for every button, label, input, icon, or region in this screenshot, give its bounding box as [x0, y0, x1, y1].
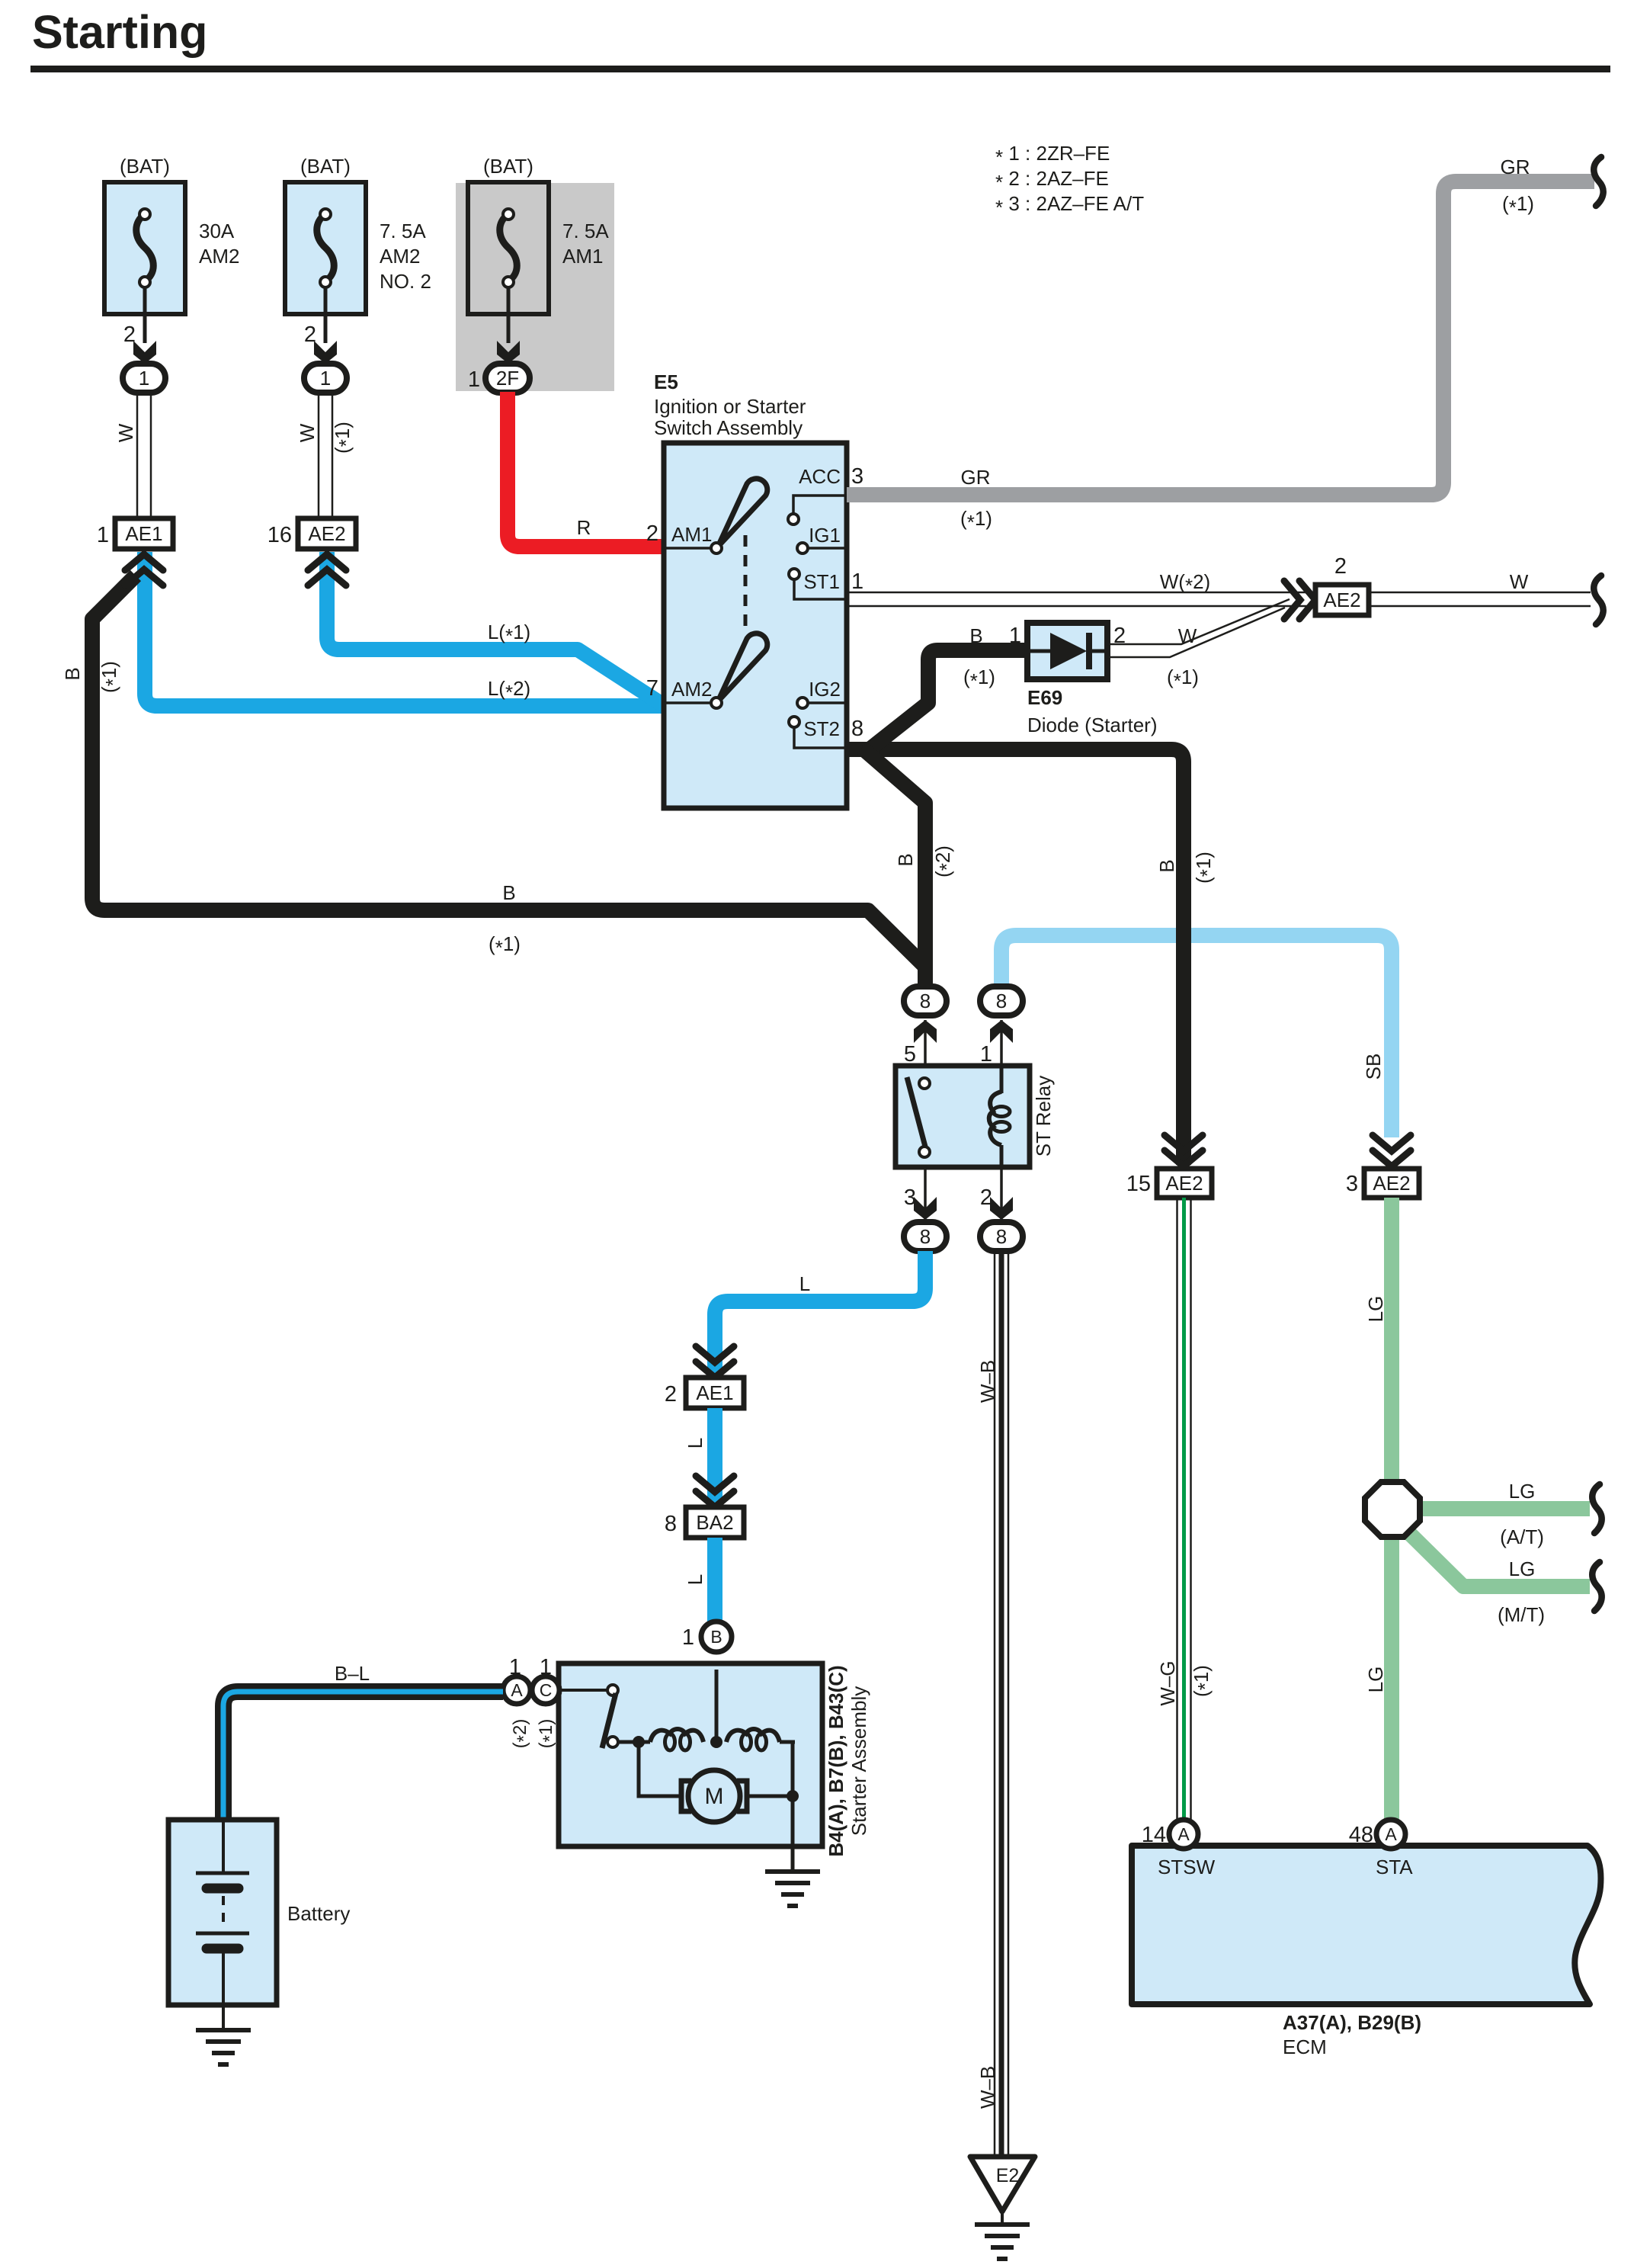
svg-text:L(*2): L(*2) [488, 677, 530, 704]
connector 8 (relay pin2 bottom) [980, 1222, 1023, 1251]
svg-text:(*1): (*1) [1167, 666, 1199, 692]
svg-text:IG1: IG1 [809, 524, 841, 547]
wire motor left [639, 1741, 681, 1796]
svg-text:L: L [684, 1574, 706, 1585]
wire L(*1) blue from AE2 to AM2 [327, 552, 665, 703]
wire L BA2 to starter B [707, 1538, 722, 1622]
svg-text:B–L: B–L [335, 1662, 370, 1685]
wire W fuse1 to AE1 [136, 393, 139, 518]
connector 2F [485, 364, 530, 393]
svg-text:W(*2): W(*2) [1160, 570, 1210, 597]
svg-text:A: A [1385, 1824, 1397, 1844]
svg-text:LG: LG [1364, 1296, 1387, 1323]
wire motor right to ground [791, 1741, 795, 1872]
svg-text:L(*1): L(*1) [488, 621, 530, 647]
svg-text:(*2): (*2) [931, 845, 958, 877]
svg-text:1: 1 [468, 367, 480, 392]
wire L blue from AE1 to AM2 (L(*2)) [145, 552, 665, 706]
wire LG octagon to ECM STA [1384, 1537, 1399, 1820]
connector AE1 pin1 [115, 518, 173, 549]
starter assembly box [559, 1663, 822, 1846]
wire R red from 2F to AM1 [508, 392, 665, 547]
svg-text:7. 5A: 7. 5A [380, 220, 426, 242]
connector AE2 pin15 [1165, 1135, 1203, 1151]
svg-text:B: B [894, 853, 917, 866]
wire LG M/T [1407, 1531, 1590, 1586]
svg-text:E5: E5 [654, 371, 678, 393]
wire relay pin1 [1000, 1020, 1003, 1066]
svg-text:2: 2 [646, 521, 658, 546]
svg-text:AM2: AM2 [380, 245, 420, 268]
svg-text:1: 1 [509, 1655, 521, 1679]
ground (starter) [765, 1869, 820, 1874]
connector 8 (relay pin1 top) [980, 986, 1023, 1015]
svg-text:W: W [114, 423, 137, 442]
svg-text:(*1): (*1) [1192, 852, 1219, 884]
ground point E2 [970, 2157, 1035, 2212]
svg-text:W–B: W–B [976, 1360, 999, 1403]
ground (battery) [196, 2028, 251, 2032]
ignition switch E5 box [664, 443, 847, 808]
svg-text:NO. 2: NO. 2 [380, 270, 431, 293]
svg-text:15: 15 [1126, 1172, 1151, 1196]
svg-text:1: 1 [1009, 624, 1021, 648]
svg-text:2: 2 [1334, 554, 1347, 579]
battery symbol [222, 1820, 225, 1873]
svg-text:STSW: STSW [1158, 1856, 1216, 1878]
svg-text:BA2: BA2 [696, 1511, 733, 1534]
wire break W [1594, 576, 1603, 624]
wire break LG M/T [1592, 1562, 1601, 1611]
svg-text:3: 3 [851, 464, 863, 489]
svg-text:IG2: IG2 [809, 678, 841, 701]
svg-text:Starter Assembly: Starter Assembly [847, 1686, 870, 1837]
starter coils [618, 1740, 650, 1744]
svg-text:ECM: ECM [1283, 2035, 1327, 2058]
node octagon splice [1365, 1482, 1420, 1537]
svg-text:(*1): (*1) [98, 661, 124, 693]
wire L AE1-BA2 [707, 1408, 722, 1505]
svg-text:W: W [1510, 570, 1529, 593]
connector AE1 pin2 [686, 1378, 744, 1408]
svg-text:M: M [705, 1784, 724, 1809]
svg-text:8: 8 [851, 717, 863, 741]
svg-text:(*1): (*1) [489, 932, 521, 959]
svg-text:(*1): (*1) [1190, 1665, 1216, 1697]
svg-text:* 1 : 2ZR–FE: * 1 : 2ZR–FE [995, 142, 1110, 168]
svg-text:8: 8 [920, 990, 931, 1012]
connector A pin1 [503, 1676, 530, 1704]
svg-text:A: A [511, 1680, 523, 1700]
svg-text:(A/T): (A/T) [1500, 1525, 1544, 1548]
svg-text:8: 8 [996, 1225, 1007, 1248]
chevrons into AE1 [125, 554, 163, 570]
svg-text:1: 1 [139, 367, 149, 390]
svg-text:5: 5 [904, 1042, 916, 1067]
wire relay pin2 [1000, 1167, 1003, 1220]
wire W right of AE2 [1369, 592, 1591, 594]
wire B-L battery to starter [223, 1692, 503, 1817]
relay ST Relay box [895, 1066, 1030, 1167]
wire starter B internal [715, 1670, 719, 1741]
svg-text:R: R [577, 516, 591, 539]
svg-text:(*1): (*1) [1502, 192, 1534, 219]
connector 1 (fuse2) [304, 364, 347, 393]
svg-text:30A: 30A [199, 220, 235, 242]
wire break LG A/T [1592, 1484, 1601, 1533]
connector A pin14 (STSW) [1169, 1820, 1198, 1849]
connector AE2 pin3 [1373, 1135, 1411, 1151]
ECM box [1132, 1846, 1600, 2004]
svg-text:ST1: ST1 [803, 570, 840, 593]
svg-text:ACC: ACC [799, 465, 841, 488]
wire SB from relay oval to AE2-3 [1001, 935, 1392, 1137]
svg-text:8: 8 [920, 1225, 931, 1248]
svg-text:B: B [969, 624, 982, 647]
wire relay pin3 [924, 1167, 927, 1220]
svg-text:B: B [1155, 859, 1178, 872]
svg-text:GR: GR [961, 466, 991, 489]
relay coil [1000, 1066, 1004, 1093]
svg-text:48: 48 [1349, 1823, 1373, 1847]
svg-text:A: A [1177, 1824, 1190, 1844]
svg-text:(BAT): (BAT) [120, 155, 170, 178]
wire W-G to ECM STSW [1176, 1198, 1178, 1820]
relay switch [907, 1077, 925, 1147]
svg-text:W–B: W–B [976, 2066, 999, 2109]
svg-text:B: B [61, 667, 84, 680]
svg-text:(*1): (*1) [331, 422, 357, 454]
svg-text:AE1: AE1 [125, 522, 162, 545]
wire B(*1) from AE1 down-left and along bottom [92, 576, 925, 986]
svg-text:AM1: AM1 [562, 245, 603, 268]
wire B(*1) branch to diode [867, 650, 1027, 752]
wire W-B from relay pin2 to E2 [994, 1251, 996, 2157]
svg-text:B: B [710, 1627, 722, 1647]
svg-text:W: W [296, 423, 319, 442]
svg-text:E2: E2 [996, 2165, 1020, 2186]
svg-text:L: L [684, 1438, 706, 1448]
svg-text:(M/T): (M/T) [1498, 1603, 1545, 1626]
svg-text:A37(A), B29(B): A37(A), B29(B) [1283, 2011, 1421, 2034]
battery box [168, 1820, 277, 2005]
motor M [688, 1770, 740, 1822]
connector C pin1 [532, 1676, 559, 1704]
svg-text:1: 1 [540, 1655, 552, 1679]
svg-text:B: B [502, 881, 515, 904]
svg-text:C: C [540, 1680, 553, 1700]
svg-text:B4(A), B7(B), B43(C): B4(A), B7(B), B43(C) [825, 1665, 847, 1856]
svg-text:* 2 : 2AZ–FE: * 2 : 2AZ–FE [995, 167, 1109, 194]
wire relay pin5 [924, 1020, 927, 1066]
svg-text:2F: 2F [496, 367, 519, 390]
svg-text:16: 16 [268, 523, 292, 547]
svg-text:1: 1 [320, 367, 331, 390]
svg-text:STA: STA [1376, 1856, 1413, 1878]
svg-text:Switch Assembly: Switch Assembly [654, 416, 803, 439]
svg-text:(*1): (*1) [960, 507, 992, 534]
svg-text:LG: LG [1509, 1557, 1536, 1580]
wire L from relay to AE1 [715, 1251, 925, 1375]
wire LG down to octagon [1384, 1198, 1399, 1482]
wire fuse3 pin1 [507, 288, 511, 343]
svg-text:1: 1 [851, 569, 863, 594]
svg-text:Ignition or Starter: Ignition or Starter [654, 395, 806, 418]
svg-text:Battery: Battery [287, 1902, 350, 1925]
svg-text:2: 2 [980, 1185, 992, 1210]
connector 8 (relay pin5 top) [904, 986, 947, 1015]
connector AE2 pin2 (mid) [1284, 581, 1300, 619]
svg-text:AM1: AM1 [671, 523, 712, 546]
svg-text:1: 1 [682, 1625, 694, 1650]
svg-text:(*1): (*1) [963, 666, 995, 692]
connector AE2 pin16 [298, 518, 356, 549]
wire W(*1) from diode to AE2 [1107, 599, 1290, 644]
wire B(*2) branch down to ST relay [862, 748, 925, 986]
svg-text:Diode (Starter): Diode (Starter) [1027, 714, 1158, 736]
wire LG A/T [1420, 1501, 1590, 1516]
svg-text:AE2: AE2 [1323, 589, 1360, 611]
svg-text:AE2: AE2 [1165, 1172, 1203, 1195]
svg-text:* 3 : 2AZ–FE A/T: * 3 : 2AZ–FE A/T [995, 192, 1144, 219]
svg-text:AM2: AM2 [199, 245, 239, 268]
wire break GR [1594, 157, 1603, 206]
connector B (starter pin1) [701, 1622, 732, 1652]
svg-text:L: L [799, 1272, 810, 1295]
connector BA2 pin8 [686, 1507, 744, 1538]
svg-text:(BAT): (BAT) [483, 155, 533, 178]
diode symbol [1030, 650, 1052, 653]
connector 1 (fuse1) [123, 364, 165, 393]
chevrons into AE2 [308, 554, 346, 570]
svg-text:LG: LG [1509, 1480, 1536, 1503]
svg-text:AE2: AE2 [308, 522, 345, 545]
connector 8 (relay pin3 bottom) [904, 1222, 947, 1251]
svg-text:8: 8 [996, 990, 1007, 1012]
svg-text:AE2: AE2 [1373, 1172, 1410, 1195]
svg-text:GR: GR [1501, 156, 1530, 178]
wire W(*1) fuse2 to AE2 [318, 393, 320, 518]
gray panel [456, 183, 614, 391]
svg-text:ST Relay: ST Relay [1032, 1076, 1055, 1156]
svg-text:1: 1 [980, 1042, 992, 1067]
svg-text:3: 3 [1346, 1172, 1358, 1196]
svg-text:W: W [1178, 624, 1197, 647]
svg-text:Starting: Starting [32, 6, 207, 58]
svg-text:AE1: AE1 [696, 1381, 733, 1404]
svg-text:W–G: W–G [1156, 1660, 1179, 1705]
svg-text:E69: E69 [1027, 686, 1062, 709]
starter switch [559, 1689, 607, 1692]
key link dashed [744, 535, 748, 627]
connector A pin48 (STA) [1376, 1820, 1405, 1849]
svg-text:7: 7 [646, 676, 658, 701]
svg-text:3: 3 [904, 1185, 916, 1210]
svg-text:ST2: ST2 [803, 717, 840, 740]
svg-text:(BAT): (BAT) [300, 155, 351, 178]
svg-text:LG: LG [1364, 1667, 1387, 1693]
svg-text:14: 14 [1142, 1823, 1166, 1847]
svg-text:AM2: AM2 [671, 678, 712, 701]
svg-text:7. 5A: 7. 5A [562, 220, 609, 242]
svg-text:2: 2 [665, 1382, 677, 1407]
svg-text:8: 8 [665, 1512, 677, 1536]
svg-text:SB: SB [1362, 1054, 1385, 1080]
svg-text:1: 1 [97, 523, 109, 547]
